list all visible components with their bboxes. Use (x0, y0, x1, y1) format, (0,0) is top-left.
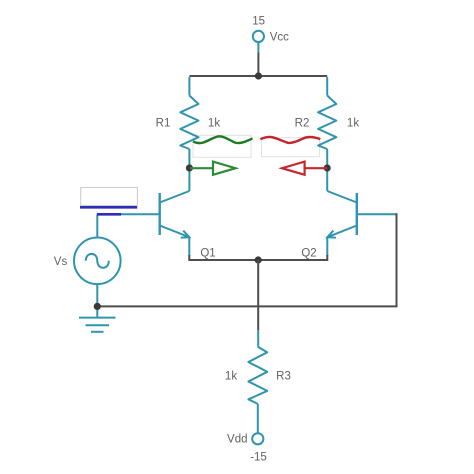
resistor R1 (180, 96, 198, 150)
svg-text:Vcc: Vcc (270, 31, 289, 43)
svg-text:Vs: Vs (54, 256, 68, 268)
svg-text:1k: 1k (225, 371, 237, 383)
wire Vcc stub teal (257, 42, 259, 53)
annotation box under R2 (262, 138, 320, 157)
wire Q1 emitter down (188, 237, 190, 256)
wire right drop (326, 77, 328, 96)
wire Vcc to rail gray (257, 53, 259, 77)
ground (79, 318, 116, 332)
annotation box under R1 (193, 135, 251, 157)
transistor Q2 (327, 191, 357, 238)
transistor Q1 (160, 191, 190, 238)
resistor R3 (248, 347, 267, 404)
terminal Vcc (253, 31, 289, 43)
wire tail teal (257, 330, 259, 347)
wire Q2 emitter to center (258, 255, 327, 260)
svg-text:Q1: Q1 (200, 248, 215, 260)
node right collector junction (324, 164, 331, 171)
wire Q1 emitter to center (189, 255, 258, 260)
node left collector junction (186, 164, 193, 171)
wire Q2 emitter down (326, 237, 328, 256)
wire R3 to Vdd (257, 404, 259, 433)
annotation red squiggle (260, 137, 320, 143)
annotation navy underline (80, 206, 137, 209)
svg-text:-15: -15 (250, 452, 267, 464)
wire top rail (189, 75, 327, 77)
node Vcc junction (255, 72, 262, 79)
svg-text:R1: R1 (156, 118, 171, 130)
svg-text:15: 15 (252, 16, 265, 28)
resistor R2 (318, 96, 336, 150)
wire R1 to collector (188, 149, 190, 191)
svg-text:Vdd: Vdd (227, 434, 247, 446)
annotation navy wire mark (97, 213, 121, 216)
wire left drop (188, 77, 190, 96)
svg-text:Q2: Q2 (301, 248, 316, 260)
annotation box near Vs (81, 187, 138, 205)
source Vs (74, 214, 121, 284)
svg-text:R2: R2 (295, 118, 310, 130)
annotation green squiggle (193, 136, 253, 143)
wire tail gray (257, 260, 259, 330)
annotation green arrow (190, 162, 236, 175)
wire feedback right (97, 213, 396, 306)
node ground junction (94, 303, 101, 310)
wire R2 to collector (326, 149, 328, 191)
wire Q2 base (357, 213, 397, 215)
wire Vs to ground (96, 284, 98, 318)
svg-text:1k: 1k (347, 118, 359, 130)
annotation red arrow (282, 162, 327, 175)
svg-text:R3: R3 (276, 371, 291, 383)
svg-text:1k: 1k (208, 118, 220, 130)
terminal Vdd (227, 433, 263, 445)
node emitter junction (255, 256, 262, 263)
wire Q1 base (97, 213, 159, 215)
